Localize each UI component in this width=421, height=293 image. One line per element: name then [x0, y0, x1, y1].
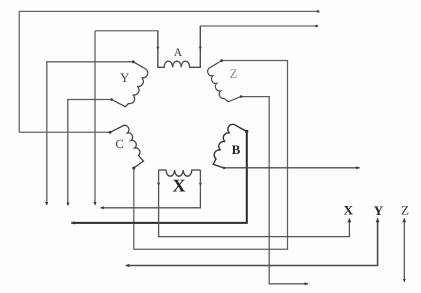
- svg-text:C: C: [115, 137, 123, 151]
- svg-text:Y: Y: [120, 70, 130, 85]
- svg-text:Y: Y: [374, 203, 384, 218]
- svg-text:X: X: [173, 176, 186, 196]
- svg-text:B: B: [232, 142, 241, 157]
- svg-text:Z: Z: [230, 66, 238, 81]
- svg-text:A: A: [174, 47, 183, 59]
- svg-text:Z: Z: [401, 203, 409, 218]
- svg-text:X: X: [344, 202, 354, 217]
